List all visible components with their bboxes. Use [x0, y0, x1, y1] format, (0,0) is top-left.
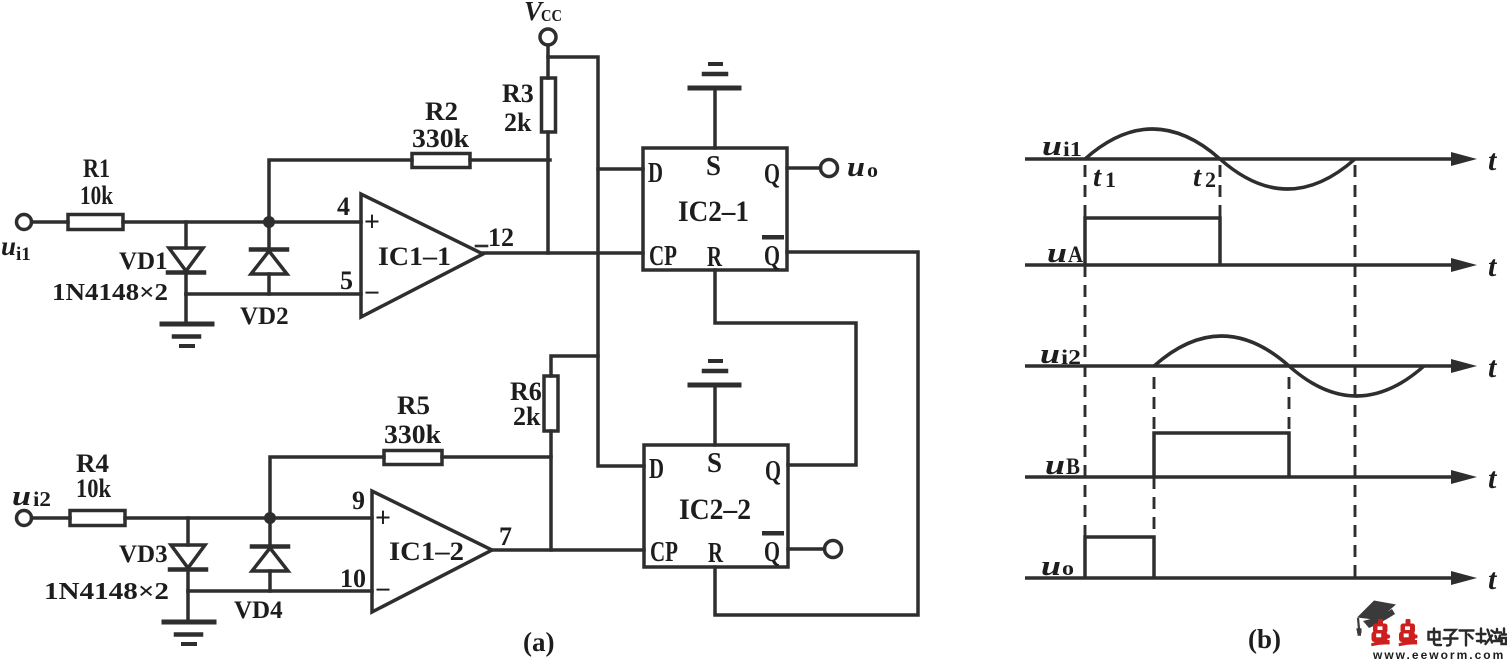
svg-text:i2: i2	[33, 487, 51, 511]
svg-text:B: B	[1066, 454, 1080, 479]
svg-text:−: −	[364, 278, 380, 309]
svg-text:u: u	[1047, 238, 1067, 269]
svg-text:o: o	[867, 160, 878, 182]
svg-text:9: 9	[352, 486, 365, 515]
svg-text:t: t	[1488, 250, 1498, 283]
svg-text:i1: i1	[16, 244, 31, 265]
svg-text:7: 7	[499, 522, 512, 551]
svg-text:10k: 10k	[80, 181, 113, 210]
svg-text:R2: R2	[425, 97, 458, 126]
svg-text:u: u	[1, 231, 16, 261]
svg-text:IC2–1: IC2–1	[678, 195, 749, 228]
svg-text:VD4: VD4	[234, 597, 283, 624]
svg-text:u: u	[847, 152, 865, 183]
svg-text:u: u	[12, 481, 31, 512]
svg-text:R1: R1	[83, 154, 110, 183]
svg-text:u: u	[1041, 551, 1061, 582]
svg-text:S: S	[706, 150, 721, 182]
svg-text:CP: CP	[650, 536, 678, 568]
svg-text:R3: R3	[502, 79, 534, 108]
svg-text:D: D	[649, 453, 664, 485]
svg-text:Q: Q	[765, 455, 781, 487]
svg-text:1N4148×2: 1N4148×2	[52, 280, 168, 306]
svg-text:R5: R5	[397, 391, 430, 420]
svg-text:VD3: VD3	[119, 541, 168, 568]
svg-text:330k: 330k	[412, 124, 470, 153]
svg-text:(a): (a)	[523, 627, 554, 657]
svg-text:2k: 2k	[513, 402, 541, 431]
svg-text:(b): (b)	[1248, 624, 1281, 654]
svg-text:10k: 10k	[76, 474, 111, 503]
svg-text:2k: 2k	[504, 108, 532, 137]
svg-text:IC1–2: IC1–2	[389, 537, 464, 566]
svg-text:+: +	[364, 207, 380, 238]
svg-text:IC2–2: IC2–2	[679, 493, 751, 526]
svg-text:t: t	[1488, 144, 1498, 177]
svg-text:t: t	[1488, 351, 1498, 384]
svg-text:t: t	[1193, 161, 1202, 193]
svg-text:www.eeworm.com: www.eeworm.com	[1372, 648, 1505, 659]
svg-text:A: A	[1068, 242, 1083, 267]
svg-text:IC1–1: IC1–1	[378, 242, 451, 271]
svg-text:330k: 330k	[384, 420, 442, 449]
svg-text:1: 1	[1105, 167, 1116, 192]
svg-text:t: t	[1488, 462, 1498, 495]
svg-text:5: 5	[340, 266, 353, 295]
svg-text:t: t	[1488, 563, 1498, 596]
svg-text:2: 2	[1205, 167, 1216, 192]
svg-text:Q: Q	[764, 158, 780, 190]
svg-text:10: 10	[340, 564, 366, 593]
svg-text:Q: Q	[764, 240, 780, 272]
svg-text:VD2: VD2	[240, 303, 289, 330]
svg-text:CP: CP	[649, 240, 677, 272]
svg-text:1N4148×2: 1N4148×2	[44, 579, 169, 605]
svg-text:o: o	[1062, 556, 1074, 580]
svg-text:u: u	[1045, 450, 1065, 481]
svg-text:+: +	[375, 503, 391, 534]
svg-text:R: R	[708, 537, 724, 569]
svg-text:u: u	[1040, 339, 1060, 370]
svg-text:VD1: VD1	[119, 248, 168, 275]
svg-text:Q: Q	[764, 536, 780, 568]
svg-text:R: R	[707, 241, 723, 273]
svg-text:u: u	[1042, 131, 1062, 162]
svg-text:12: 12	[488, 223, 514, 252]
svg-text:D: D	[648, 157, 663, 189]
svg-text:−: −	[375, 575, 391, 606]
svg-text:4: 4	[337, 192, 350, 221]
svg-text:S: S	[707, 447, 722, 479]
svg-text:i1: i1	[1063, 137, 1082, 161]
svg-text:t: t	[1093, 161, 1102, 193]
svg-text:i2: i2	[1061, 345, 1081, 369]
svg-text:CC: CC	[541, 6, 562, 25]
